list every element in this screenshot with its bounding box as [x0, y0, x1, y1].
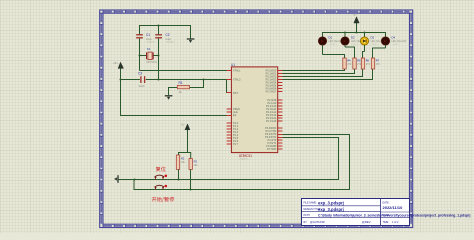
- push button (reset): [155, 175, 168, 180]
- junction node R3/stop row: [190, 189, 192, 191]
- svg-text:<TEXT>: <TEXT>: [371, 43, 380, 46]
- border tick marks: [100, 10, 413, 228]
- svg-text:C3: C3: [138, 72, 142, 76]
- svg-text:<TEXT>: <TEXT>: [166, 40, 176, 44]
- junction node (R1 riser): [203, 79, 205, 81]
- svg-text:EA: EA: [233, 114, 237, 117]
- svg-text:R4: R4: [347, 58, 351, 62]
- svg-text:D4: D4: [392, 36, 396, 40]
- wire: D2 to R5: [345, 47, 355, 58]
- svg-text:R7: R7: [376, 58, 380, 62]
- wire: RST/XTAL2 net: [121, 79, 140, 81]
- svg-text:P1.7: P1.7: [233, 143, 239, 146]
- svg-text:FILE NAME:: FILE NAME:: [304, 202, 318, 205]
- resistor R4: [343, 58, 346, 69]
- resistor R7: [371, 58, 374, 69]
- wire: P0.1 to R5: [282, 69, 354, 74]
- svg-text:XTAL1: XTAL1: [233, 70, 241, 73]
- U1 left pin stubs: [227, 71, 232, 145]
- svg-text:R6: R6: [366, 58, 370, 62]
- ground terminal (left, buttons): [114, 175, 134, 183]
- U1 right pin stubs: [278, 71, 283, 150]
- wire: reset row left: [135, 179, 179, 181]
- wire: P3.2 loop to stop button row: [191, 135, 350, 190]
- LED D3 (lit): [360, 37, 368, 52]
- svg-text:P0.7/AD7: P0.7/AD7: [266, 91, 277, 94]
- svg-text:P3.7/RD: P3.7/RD: [267, 148, 277, 151]
- wire: XTAL1 net: [140, 70, 232, 72]
- svg-text:D3: D3: [371, 36, 375, 40]
- wire: D3 to R6: [363, 52, 365, 59]
- resistor R1: [177, 85, 189, 88]
- junction node rail/C2: [158, 25, 160, 27]
- svg-text:TIME:: TIME:: [383, 221, 390, 224]
- wire: RST jog into pin: [227, 80, 232, 93]
- U1 left pin names: [233, 70, 241, 147]
- svg-text:<TEXT>: <TEXT>: [329, 43, 338, 46]
- svg-text:<TEXT>: <TEXT>: [351, 43, 360, 46]
- svg-text:@REV: @REV: [362, 220, 371, 224]
- svg-text:C:\Study information\junior_3_: C:\Study information\junior_3_semester\u…: [318, 213, 470, 217]
- svg-text:R5: R5: [357, 58, 361, 62]
- junction node R2/reset row: [178, 179, 180, 181]
- svg-text:<TEXT>: <TEXT>: [239, 157, 249, 161]
- wire: cap top rail: [140, 26, 191, 39]
- LED D2: [341, 37, 349, 47]
- svg-text:R3: R3: [194, 159, 198, 163]
- junction node rail/power: [356, 32, 358, 34]
- wire: R2 bottom to reset row: [178, 170, 180, 180]
- junction node (crystal right / RST wire): [158, 79, 160, 81]
- svg-text:DATE:: DATE:: [383, 202, 390, 205]
- svg-text:+5v: +5v: [113, 61, 118, 65]
- svg-text:X1: X1: [147, 47, 151, 51]
- capacitor C1: [136, 35, 143, 71]
- LED D1: [318, 37, 326, 55]
- svg-text:@AUTHOR: @AUTHOR: [310, 220, 325, 224]
- svg-text:270: 270: [347, 63, 352, 66]
- svg-text:R2: R2: [181, 156, 185, 160]
- resistor R2: [176, 155, 179, 170]
- svg-text:D1: D1: [329, 36, 333, 40]
- svg-text:CRYSTAL: CRYSTAL: [146, 61, 158, 64]
- svg-text:2022/11/10: 2022/11/10: [383, 205, 404, 210]
- svg-text:BY:: BY:: [304, 221, 308, 224]
- ground (top, right of C2): [187, 39, 195, 43]
- resistor R6: [361, 58, 364, 69]
- wire: P0.0 to R4: [282, 69, 344, 71]
- svg-text:U1: U1: [231, 63, 235, 67]
- junction node rail/D2: [344, 32, 346, 34]
- wire: D1 to R4: [323, 55, 345, 59]
- wire: EA tie: [121, 80, 232, 116]
- sheet border frame: [100, 10, 413, 228]
- wire: R1 branch: [169, 80, 204, 96]
- svg-text:22uF: 22uF: [139, 84, 146, 88]
- wire: pullup top rail: [179, 153, 191, 159]
- resistor R3: [189, 159, 192, 170]
- power +5v terminal (button pullups): [181, 123, 190, 152]
- svg-text:PAGE:: PAGE:: [383, 214, 390, 217]
- power +5v terminal (left): [118, 62, 123, 79]
- svg-text:XTAL2: XTAL2: [233, 79, 241, 82]
- wire: LED +5v rail: [323, 33, 386, 38]
- svg-text:RST: RST: [233, 92, 238, 95]
- resistor R5: [353, 58, 356, 69]
- crystal X1: [139, 52, 160, 60]
- wire: P3.3 loop to reset button row: [179, 138, 339, 180]
- svg-text:D2: D2: [351, 36, 355, 40]
- junction node rail/D3: [364, 32, 366, 34]
- svg-text:R1: R1: [179, 81, 183, 85]
- svg-text:exp_3.pdsprj: exp_3.pdsprj: [318, 207, 344, 212]
- LED D4: [381, 37, 389, 48]
- svg-text:P2.7/A15: P2.7/A15: [266, 120, 277, 123]
- svg-text:270: 270: [366, 63, 371, 66]
- push button (start/stop): [155, 185, 168, 190]
- svg-text:<TEXT>: <TEXT>: [146, 40, 156, 44]
- op-amp U1 body (AT89C51 microcontroller): [231, 67, 277, 153]
- svg-text:exp_3.pdsprj: exp_3.pdsprj: [318, 200, 344, 205]
- junction node (+5v / C3): [120, 79, 122, 81]
- wire: P0.2 to R6: [282, 69, 362, 77]
- wire: D4 to R7: [373, 48, 386, 58]
- wire: P0.3 to R7: [282, 69, 372, 80]
- svg-text:<TEXT>: <TEXT>: [392, 43, 401, 46]
- capacitor C3: [141, 76, 145, 83]
- wire: R3 bottom to stop row: [190, 170, 192, 190]
- wire: row drop: [134, 180, 191, 190]
- svg-text:1k: 1k: [179, 90, 183, 94]
- svg-text:1 of 2: 1 of 2: [392, 220, 399, 224]
- U1 right pin names: [265, 70, 277, 152]
- svg-text:270: 270: [376, 63, 381, 66]
- ground (below R1): [165, 96, 173, 100]
- junction node button rows: [134, 179, 136, 181]
- svg-text:LED-YELLOW: LED-YELLOW: [392, 41, 408, 43]
- svg-text:PATH:: PATH:: [304, 214, 311, 217]
- capacitor C2: [155, 26, 162, 80]
